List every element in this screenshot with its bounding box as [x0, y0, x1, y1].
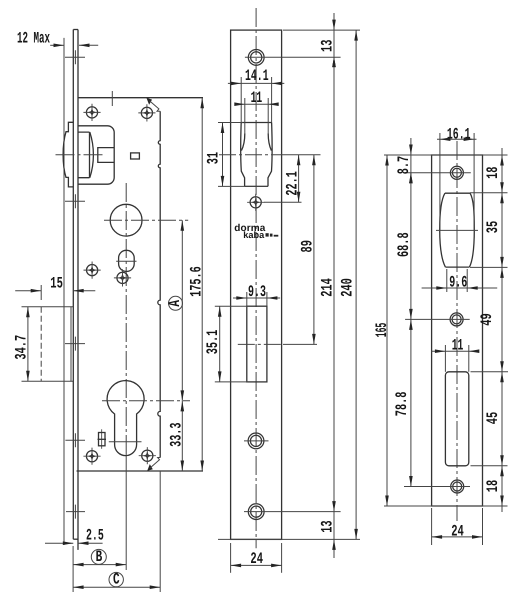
mid screw hole: [450, 313, 463, 326]
svg-text:35: 35: [484, 221, 502, 233]
svg-text:A: A: [166, 300, 184, 307]
svg-text:18: 18: [484, 480, 502, 492]
dim 31 (window height): [204, 123, 268, 187]
barrel center tick: [436, 229, 478, 231]
door face line: [63, 38, 65, 545]
dim 68.8: [395, 173, 413, 320]
dim 9.6: [422, 269, 498, 292]
lower hole B: [248, 504, 264, 520]
top screw hole: [450, 166, 463, 179]
dim 9.3: [233, 283, 280, 306]
lower hole A: [248, 433, 264, 449]
latch horizontal centerline: [219, 154, 321, 156]
handle hub centerline: [104, 219, 188, 221]
faceplate plate outline: [231, 30, 282, 539]
euro profile cylinder hole: [107, 381, 144, 456]
bottom screw hole: [451, 480, 464, 493]
dim 18 bottom: [484, 466, 504, 506]
dim 2.5: [45, 526, 104, 545]
stadium cross: [116, 260, 136, 262]
svg-text:45: 45: [484, 412, 502, 424]
dim 214: [319, 57, 337, 512]
dim 45: [484, 372, 504, 466]
latch bolt tip (front view): [241, 134, 271, 151]
right chain dim line: [501, 148, 503, 512]
plate bottom edge extension: [384, 505, 508, 507]
top screw centerline: [405, 172, 471, 174]
right chain extension lines: [470, 193, 508, 466]
stop pin rect: [131, 153, 140, 159]
screw bottom-left: [83, 448, 100, 465]
svg-text:kaba: kaba: [243, 230, 265, 240]
svg-text:C: C: [113, 571, 120, 589]
top screw hole: [248, 50, 264, 66]
screw boss left-mid: [84, 262, 101, 279]
centerline extension to B dim: [125, 452, 127, 570]
deadbolt slot: [445, 372, 468, 466]
svg-text:B: B: [96, 548, 103, 566]
lower hole A centerline: [244, 440, 269, 442]
lock case right edge with clip notches: [158, 111, 160, 457]
strike plate outline: [432, 155, 483, 506]
svg-text:68.8: 68.8: [395, 232, 413, 257]
svg-text:78.8: 78.8: [393, 392, 411, 417]
svg-text:31: 31: [204, 152, 222, 164]
latch bolt body: [78, 132, 93, 178]
latch opening (barrel shape): [440, 193, 475, 267]
dim 15: [15, 274, 95, 300]
dormakaba logo: [234, 223, 278, 240]
svg-text:15: 15: [50, 274, 63, 292]
latch window: [241, 123, 272, 187]
latch tail rect: [98, 148, 114, 163]
lock case top edge: [78, 97, 203, 99]
dim 240: [338, 30, 358, 539]
dim 175.6: [188, 98, 206, 471]
dim 34.7: [12, 307, 30, 381]
svg-text:165: 165: [373, 323, 391, 338]
lower hole B centerline / extension: [244, 511, 341, 513]
dim 33.3: [167, 401, 185, 471]
screw top-left: [83, 104, 100, 121]
dim 13 top: [319, 13, 337, 67]
faceplate bar: [73, 30, 78, 550]
svg-text:8.7: 8.7: [395, 156, 413, 174]
svg-text:175.6: 175.6: [188, 266, 206, 297]
plate top edge extension: [384, 154, 508, 156]
dim 89: [298, 155, 316, 345]
bottom screw centerline: [404, 486, 470, 488]
plate vertical centerline: [255, 8, 257, 548]
dim 16.1: [437, 125, 477, 231]
case top hole tick: [111, 91, 113, 106]
plate top edge extension: [283, 29, 360, 31]
cylinder horizontal centerline: [102, 400, 190, 402]
dim 13 bottom: [319, 512, 337, 558]
corner break mark bottom-right: [147, 458, 160, 471]
dim 22.1: [283, 155, 301, 203]
cylinder centerline: [238, 343, 317, 345]
latch centerline: [56, 154, 104, 156]
svg-text:240: 240: [338, 278, 356, 297]
keyhole cap center tick: [109, 441, 142, 443]
dim A (handle to cylinder): [166, 220, 184, 401]
dim 78.8: [393, 319, 413, 486]
svg-text:11: 11: [452, 337, 464, 355]
mid screw centerline: [405, 318, 470, 320]
svg-text:24: 24: [451, 522, 464, 540]
plate bottom edge extension: [218, 538, 360, 540]
screw bottom-right: [139, 447, 156, 464]
mid screw extension line: [264, 201, 302, 203]
svg-text:12 Max: 12 Max: [17, 29, 50, 47]
dim 24 (strike plate width): [432, 508, 483, 545]
dim 8.7: [395, 138, 413, 183]
top hole centerline / extension to 13-214 dims: [245, 56, 341, 58]
dim 35: [484, 193, 504, 268]
dim 18 top: [484, 155, 504, 193]
svg-text:9.6: 9.6: [449, 273, 467, 291]
screw top-right: [138, 104, 155, 121]
grub screw symbol: [98, 429, 107, 449]
dim 165: [373, 155, 391, 506]
lock vertical centerline: [125, 183, 127, 452]
hidden follower box (dashed): [22, 307, 74, 381]
latch housing box: [78, 126, 114, 184]
dim 49: [478, 267, 504, 371]
faceplate hidden-hole center crosses: [65, 50, 85, 518]
dim 14.1: [228, 67, 284, 122]
svg-text:49: 49: [478, 313, 496, 325]
strike plate vertical centerline: [456, 141, 458, 521]
dim 11 (slot width): [431, 337, 479, 372]
svg-text:2.5: 2.5: [86, 526, 104, 544]
cylinder slot: [247, 306, 267, 382]
corner break mark top-right: [146, 98, 160, 112]
mid screw hole: [247, 194, 264, 211]
screw boss center: [114, 269, 131, 286]
dim C (case width): [73, 571, 160, 589]
svg-text:14.1: 14.1: [245, 67, 269, 85]
follower stadium slot: [119, 250, 135, 271]
dim 11 (latch width): [234, 89, 278, 133]
dim 24 (middle plate width): [231, 543, 282, 573]
svg-text:18: 18: [484, 167, 502, 179]
svg-text:16.1: 16.1: [447, 125, 471, 143]
handle hub circle: [110, 204, 142, 236]
dim B (backset): [73, 471, 160, 592]
latch head (in front of faceplate): [63, 122, 73, 187]
dim 12 Max: [17, 29, 98, 47]
lock case bottom edge: [77, 470, 204, 472]
dim 35.1: [204, 306, 248, 382]
